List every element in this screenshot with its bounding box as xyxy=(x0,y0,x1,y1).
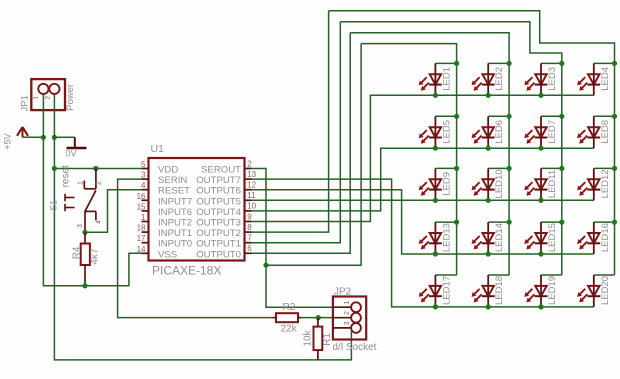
wire SEROUT pin2 down to JP2 pin1 xyxy=(252,169,333,308)
junction LED8 anode on column 4 xyxy=(612,114,617,119)
svg-text:LED10: LED10 xyxy=(494,169,505,198)
IC U1 PICAXE-18X body xyxy=(149,158,245,261)
LED LED6 xyxy=(472,116,510,148)
svg-text:LED4: LED4 xyxy=(600,67,611,91)
svg-text:d/l Socket: d/l Socket xyxy=(333,342,377,353)
svg-text:3: 3 xyxy=(77,224,84,228)
label R1 xyxy=(322,333,333,346)
svg-text:LED17: LED17 xyxy=(441,276,452,305)
label 0V xyxy=(66,148,77,158)
svg-text:OUTPUT0: OUTPUT0 xyxy=(196,249,241,260)
JP1 pin number 2 xyxy=(44,96,51,100)
wire JP1 pin2 0V vertical rail down to bottom xyxy=(54,110,351,360)
junction LED9 anode on column 1 xyxy=(454,166,459,171)
svg-text:9: 9 xyxy=(247,212,252,221)
svg-text:15: 15 xyxy=(137,202,146,211)
svg-text:LED7: LED7 xyxy=(547,120,558,144)
wire 0V rail to U1 VDD pin 5 xyxy=(54,168,141,170)
U1 left pin stubs xyxy=(142,169,149,254)
wire +5V arrow to JP1 pin1 net xyxy=(23,136,44,138)
svg-text:4: 4 xyxy=(96,220,103,224)
svg-text:16: 16 xyxy=(137,192,146,201)
LED LED19 xyxy=(524,275,562,307)
svg-text:3: 3 xyxy=(344,321,351,325)
wire SEROUT branch to column1 bus riser xyxy=(266,44,361,266)
svg-text:LED5: LED5 xyxy=(441,120,452,144)
junction LED15 anode on column 3 xyxy=(559,220,564,225)
junction LED10 cathode on row 3 xyxy=(486,198,491,203)
LED LED15 xyxy=(524,222,562,254)
resistor R2 xyxy=(273,313,301,322)
label +5V xyxy=(2,133,12,149)
label LED11 xyxy=(547,170,558,198)
LED LED9 xyxy=(419,168,457,200)
svg-text:INPUT7: INPUT7 xyxy=(158,196,192,207)
svg-text:VSS: VSS xyxy=(158,249,177,260)
junction LED1 cathode on row 1 xyxy=(433,93,438,98)
svg-text:2: 2 xyxy=(44,96,51,100)
svg-text:10: 10 xyxy=(247,202,256,211)
svg-text:0V: 0V xyxy=(66,148,77,158)
svg-text:LED1: LED1 xyxy=(441,67,452,91)
svg-text:+5V: +5V xyxy=(2,133,12,149)
svg-text:JP2: JP2 xyxy=(334,287,352,298)
junction LED7 anode on column 3 xyxy=(559,114,564,119)
svg-text:OUTPUT2: OUTPUT2 xyxy=(196,228,241,239)
wire bus line 2 to LED column 3 xyxy=(340,22,562,275)
svg-text:2: 2 xyxy=(96,181,103,185)
U1 right pin stubs xyxy=(245,169,252,254)
U1 right pin numbers 2 13 12 11 10 9 8 7 6 xyxy=(247,159,256,253)
junction LED9 cathode on row 3 xyxy=(433,198,438,203)
svg-text:8: 8 xyxy=(247,223,252,232)
LED LED10 xyxy=(472,168,510,200)
svg-text:22k: 22k xyxy=(281,324,298,335)
label LED13 xyxy=(441,223,452,252)
label Power xyxy=(65,84,76,111)
switch S1 (reset) xyxy=(65,169,96,233)
U1 left pin numbers 5 3 4 16 15 1 18 17 14 xyxy=(137,160,146,254)
svg-text:OUTPUT3: OUTPUT3 xyxy=(196,218,241,229)
LED LED20 xyxy=(577,275,614,307)
svg-text:14: 14 xyxy=(137,245,146,254)
svg-text:1: 1 xyxy=(141,213,146,222)
svg-text:OUTPUT7: OUTPUT7 xyxy=(196,175,241,186)
wire OUTPUT2 pin8 up to bus line 1 xyxy=(252,11,329,232)
wire SERIN pin3 to R2 left xyxy=(118,179,273,318)
wire R2 right to JP2 pin2 xyxy=(301,317,333,319)
junction LED13 cathode on row 4 xyxy=(433,251,438,256)
connector JP1 (Power) xyxy=(31,79,65,110)
label S1 xyxy=(49,200,59,211)
label LED17 xyxy=(441,276,452,305)
svg-text:4: 4 xyxy=(141,181,146,190)
svg-text:1: 1 xyxy=(344,301,351,305)
svg-text:LED9: LED9 xyxy=(441,172,452,196)
label PICAXE-18X xyxy=(152,264,221,278)
label LED18 xyxy=(494,276,505,305)
LED LED18 xyxy=(472,275,510,307)
LED LED17 xyxy=(419,275,457,307)
svg-text:INPUT1: INPUT1 xyxy=(158,228,192,239)
svg-text:2: 2 xyxy=(344,311,351,315)
svg-text:OUTPUT5: OUTPUT5 xyxy=(196,196,241,207)
wire OUTPUT3 pin9 to row 1 cathode line xyxy=(252,95,594,221)
LED LED5 xyxy=(419,116,457,148)
junction R4 bottom on +5V rail xyxy=(82,283,87,288)
LED LED2 xyxy=(472,63,510,95)
label d/l Socket xyxy=(333,342,377,353)
U1 right pin names xyxy=(196,165,241,261)
label LED12 xyxy=(600,169,611,198)
svg-text:OUTPUT4: OUTPUT4 xyxy=(196,207,241,218)
svg-text:VDD: VDD xyxy=(158,165,178,176)
wire bus line 1 to LED column 4 xyxy=(329,11,615,275)
junction LED19 cathode on row 5 xyxy=(538,304,543,309)
ground 0V symbol xyxy=(54,137,86,148)
svg-text:LED2: LED2 xyxy=(494,67,505,91)
svg-text:6: 6 xyxy=(247,244,252,253)
junction LED16 anode on column 4 xyxy=(612,220,617,225)
svg-text:17: 17 xyxy=(137,234,146,243)
svg-text:11: 11 xyxy=(247,191,256,200)
wire OUTPUT1 pin7 up to bus line 2 xyxy=(252,22,341,243)
wire OUTPUT6 pin12 to row 4 cathode line xyxy=(252,190,594,254)
JP1 pin number 1 xyxy=(32,96,39,100)
label LED4 xyxy=(600,67,611,91)
junction LED14 cathode on row 4 xyxy=(486,251,491,256)
label U1 xyxy=(151,143,165,155)
svg-text:reset: reset xyxy=(61,165,72,187)
label LED6 xyxy=(494,120,505,144)
junction LED6 anode on column 2 xyxy=(507,114,512,119)
label reset net xyxy=(61,165,72,187)
label LED14 xyxy=(494,223,505,252)
LED LED12 xyxy=(577,168,614,200)
supply +5V symbol xyxy=(17,127,28,137)
LED LED14 xyxy=(472,222,510,254)
svg-text:13: 13 xyxy=(247,170,256,179)
label LED16 xyxy=(600,223,611,252)
S1 pin number 3 xyxy=(77,224,84,228)
resistor R1 xyxy=(314,318,323,360)
svg-text:INPUT2: INPUT2 xyxy=(158,218,192,229)
junction at 0V tap xyxy=(52,135,57,140)
svg-text:INPUT6: INPUT6 xyxy=(158,207,192,218)
S1 pin number 4 xyxy=(96,220,103,224)
junction LED1 anode on column 1 xyxy=(454,61,459,66)
wire RESET pin4 to switch/R4 junction xyxy=(85,190,142,233)
junction LED13 anode on column 1 xyxy=(454,220,459,225)
svg-text:LED12: LED12 xyxy=(600,169,611,198)
label LED10 xyxy=(494,169,505,198)
svg-text:18: 18 xyxy=(137,224,146,233)
svg-text:4k7: 4k7 xyxy=(90,248,101,265)
svg-text:JP1: JP1 xyxy=(19,95,30,111)
label LED1 xyxy=(441,67,452,91)
svg-text:LED15: LED15 xyxy=(547,223,558,252)
connector JP2 (d/l Socket) xyxy=(333,297,366,340)
junction LED5 cathode on row 2 xyxy=(433,146,438,151)
svg-text:PICAXE-18X: PICAXE-18X xyxy=(152,264,221,278)
S1 pin number 1 xyxy=(77,181,84,185)
svg-text:1: 1 xyxy=(32,96,39,100)
svg-text:SEROUT: SEROUT xyxy=(201,165,241,176)
label LED8 xyxy=(600,120,611,144)
label LED19 xyxy=(547,276,558,305)
svg-text:LED20: LED20 xyxy=(600,276,611,305)
label LED3 xyxy=(547,67,558,91)
wire OUTPUT4 pin10 to row 2 cathode line xyxy=(252,148,594,211)
S1 pin number 2 xyxy=(96,181,103,185)
svg-text:OUTPUT1: OUTPUT1 xyxy=(196,239,241,250)
junction LED5 anode on column 1 xyxy=(454,114,459,119)
svg-text:LED13: LED13 xyxy=(441,223,452,252)
junction LED6 cathode on row 2 xyxy=(486,146,491,151)
label R4 xyxy=(72,246,83,259)
svg-text:LED18: LED18 xyxy=(494,276,505,305)
label 10k xyxy=(303,329,314,346)
svg-text:OUTPUT6: OUTPUT6 xyxy=(196,186,241,197)
junction LED10 anode on column 2 xyxy=(507,166,512,171)
wire JP1 pin1 +5V vertical rail down to bottom rail and VSS xyxy=(43,110,141,286)
label LED2 xyxy=(494,67,505,91)
svg-text:LED8: LED8 xyxy=(600,120,611,144)
junction at +5V tap xyxy=(41,135,46,140)
junction LED3 anode on column 3 xyxy=(559,61,564,66)
JP2 pin number 2 xyxy=(344,311,351,315)
label LED15 xyxy=(547,223,558,252)
junction LED15 cathode on row 4 xyxy=(538,251,543,256)
junction LED11 cathode on row 3 xyxy=(538,198,543,203)
svg-text:RESET: RESET xyxy=(158,186,190,197)
svg-text:INPUT0: INPUT0 xyxy=(158,239,192,250)
junction LED17 cathode on row 5 xyxy=(433,304,438,309)
junction LED7 cathode on row 2 xyxy=(538,146,543,151)
svg-text:LED19: LED19 xyxy=(547,276,558,305)
svg-text:3: 3 xyxy=(141,171,146,180)
value 4k7 xyxy=(90,248,101,265)
junction LED4 anode on column 4 xyxy=(612,61,617,66)
svg-text:Power: Power xyxy=(65,84,76,111)
junction LED2 anode on column 2 xyxy=(507,61,512,66)
svg-text:12: 12 xyxy=(247,181,256,190)
svg-text:1: 1 xyxy=(77,181,84,185)
junction switch S1 top on VDD rail xyxy=(93,166,98,171)
LED LED4 xyxy=(577,63,614,95)
svg-text:R2: R2 xyxy=(283,302,296,313)
resistor R4 xyxy=(81,232,90,285)
label R2 xyxy=(283,302,296,313)
junction SEROUT branch xyxy=(263,263,268,268)
wire bus line 4 to LED column 1 xyxy=(361,44,457,275)
LED LED8 xyxy=(577,116,614,148)
wire bus line 3 to LED column 2 xyxy=(350,33,509,275)
label LED9 xyxy=(441,172,452,196)
svg-text:10k: 10k xyxy=(303,329,314,346)
value 22k xyxy=(281,324,298,335)
LED LED3 xyxy=(524,63,562,95)
junction switch bottom / R4 top / reset wire xyxy=(82,230,87,235)
LED LED13 xyxy=(419,222,457,254)
junction LED14 anode on column 2 xyxy=(507,220,512,225)
svg-text:LED16: LED16 xyxy=(600,223,611,252)
JP2 pin number 1 xyxy=(344,301,351,305)
junction LED2 cathode on row 1 xyxy=(486,93,491,98)
LED LED16 xyxy=(577,222,614,254)
junction R2/R1/JP2 pin2 node xyxy=(316,315,321,320)
svg-text:LED3: LED3 xyxy=(547,67,558,91)
svg-text:R1: R1 xyxy=(322,333,333,346)
svg-text:SERIN: SERIN xyxy=(158,175,187,186)
label LED7 xyxy=(547,120,558,144)
LED LED11 xyxy=(524,168,562,200)
wire OUTPUT7 pin13 to row 5 cathode line xyxy=(252,179,594,307)
svg-text:R4: R4 xyxy=(72,246,83,259)
svg-text:LED11: LED11 xyxy=(547,170,558,198)
U1 left pin names xyxy=(158,165,192,261)
junction LED11 anode on column 3 xyxy=(559,166,564,171)
junction LED18 cathode on row 5 xyxy=(486,304,491,309)
junction LED12 anode on column 4 xyxy=(612,166,617,171)
wire OUTPUT0 pin6 up to bus line 3 xyxy=(252,33,351,254)
label LED5 xyxy=(441,120,452,144)
wire OUTPUT5 pin11 straight to row 3 cathode line xyxy=(252,199,594,201)
junction 0V rail at VDD wire xyxy=(52,166,57,171)
svg-text:U1: U1 xyxy=(151,143,165,155)
svg-text:S1: S1 xyxy=(49,200,59,211)
svg-text:LED6: LED6 xyxy=(494,120,505,144)
label LED20 xyxy=(600,276,611,305)
label JP1 xyxy=(19,95,30,111)
LED LED7 xyxy=(524,116,562,148)
svg-text:7: 7 xyxy=(247,234,252,243)
svg-text:2: 2 xyxy=(247,159,252,168)
svg-text:LED14: LED14 xyxy=(494,223,505,252)
LED LED1 xyxy=(419,63,457,95)
JP2 pin number 3 xyxy=(344,321,351,325)
label JP2 xyxy=(334,287,352,298)
junction LED3 cathode on row 1 xyxy=(538,93,543,98)
svg-text:5: 5 xyxy=(141,160,146,169)
